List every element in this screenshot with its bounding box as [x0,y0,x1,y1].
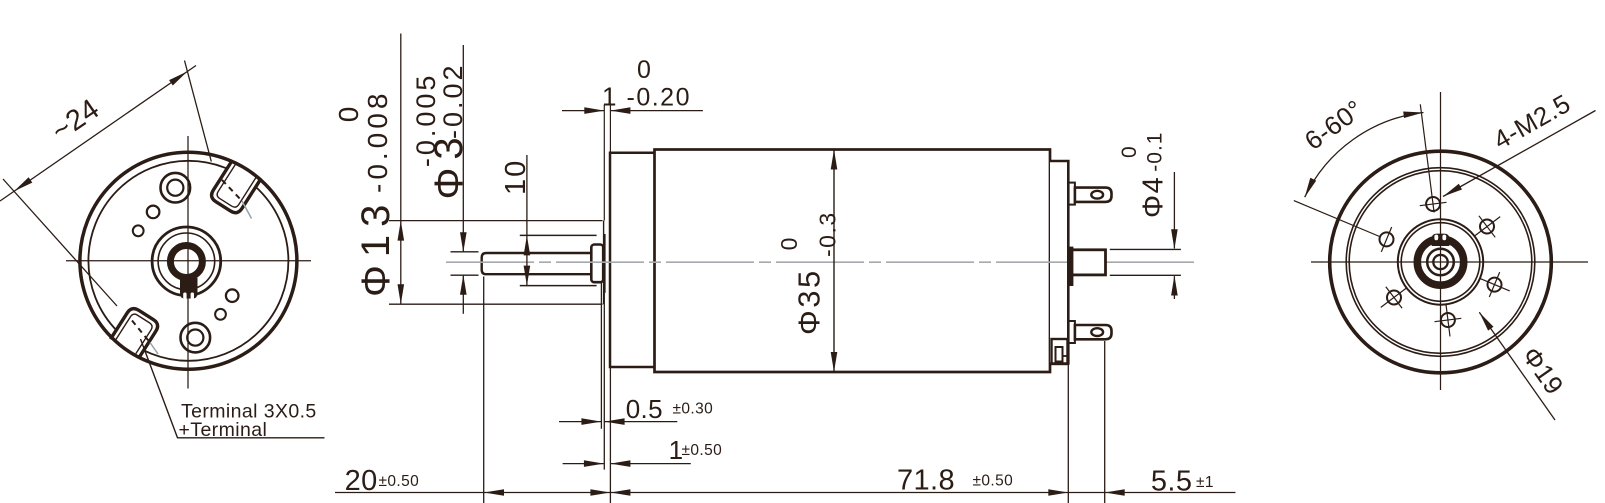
extension line: rear face [1067,364,1069,503]
rear boss rings [1398,219,1483,304]
dimension Phi4 [1110,248,1181,250]
svg-text:1: 1 [602,81,617,111]
~24 extension line lower [3,179,117,306]
left view outer rim [80,152,297,369]
svg-text:-0.3: -0.3 [815,211,841,257]
shaft [482,253,592,274]
centerline (motor axis) [446,261,1196,263]
rear shaft end rings [1427,249,1454,276]
terminal B (lower left) [110,306,160,358]
svg-text:+Terminal: +Terminal [179,419,268,441]
left view center boss [152,227,221,296]
svg-text:10: 10 [500,159,532,195]
svg-text:Φ35: Φ35 [792,268,827,335]
dimension 1 +-0.50 [563,463,604,465]
motor body cylinder [655,150,1051,373]
rear end bell [1050,161,1068,364]
svg-text:-0.02: -0.02 [438,62,468,139]
svg-text:-0.20: -0.20 [627,83,691,111]
small hole a [147,206,160,219]
svg-text:±0.50: ±0.50 [379,473,420,490]
screw hole 2 [1480,220,1494,234]
svg-text:-0.1: -0.1 [1144,132,1167,172]
terminal leader + label [141,339,325,438]
mounting hole top [161,173,191,203]
lower terminal tab (side view) [1068,321,1075,343]
screw hole 5 [1387,291,1401,305]
rear bearing retainer [1417,239,1463,285]
mounting hole bottom [181,323,211,353]
svg-text:Φ4: Φ4 [1138,176,1170,218]
~24 extension line upper [185,61,212,162]
svg-text:0: 0 [1118,145,1141,158]
dimension Phi13 [400,34,402,305]
small hole c [226,289,239,302]
label Phi19 [1479,312,1555,420]
dimension Phi35 [833,150,835,373]
label 4-M2.5 [1443,111,1596,197]
extension line: front face [609,367,611,503]
svg-text:0.5: 0.5 [626,394,663,424]
screw hole 3 [1488,278,1502,292]
svg-text:±0.50: ±0.50 [973,473,1014,490]
extension line: shaft tip [483,277,485,503]
front end plate [610,153,655,367]
svg-text:5.5: 5.5 [1151,466,1193,498]
dimension 0.5 +-0.30 [559,421,601,423]
bearing bore lines (10-dim extension) [520,234,597,236]
rear bearing collar [1067,247,1073,286]
boss front face line [603,221,605,305]
svg-text:Φ13: Φ13 [354,197,398,297]
small hole b [133,225,144,236]
svg-text:0: 0 [637,56,652,84]
svg-text:20: 20 [345,465,378,497]
extension line: boss front [603,293,605,470]
left view bearing retainer ring [170,246,202,278]
svg-text:0: 0 [776,236,802,250]
pilot boss extension lines (Phi13) [389,220,603,222]
dimension 10 [526,155,528,286]
svg-text:±0.50: ±0.50 [682,442,723,459]
dimension Phi3 [462,45,464,252]
dimension arc 6-60 deg [1305,113,1424,198]
rear retainer tab (top) [1432,234,1450,246]
screw hole 6 [1380,232,1394,246]
retainer tab (bottom) [180,278,198,299]
terminal A (upper right) [209,160,261,215]
dimension ~24 [0,66,196,202]
thermal clip (rear bottom) [1052,339,1068,364]
rear view crosshair vertical [1440,92,1442,390]
screw hole 1 [1426,197,1440,211]
left view crosshair vertical [187,136,189,389]
upper terminal tab (side view) [1068,183,1075,205]
svg-text:±1: ±1 [1196,474,1214,491]
shaft washer / spacer [591,245,603,283]
extension line: washer front [600,283,602,429]
svg-text:0: 0 [333,103,364,123]
bottom dimension line 20 / 71.8 / 5.5 [335,492,1236,494]
small hole d [215,309,226,320]
rear view crosshair horizontal [1311,261,1588,263]
screw hole 4 [1441,313,1455,327]
svg-text:71.8: 71.8 [897,465,955,497]
dimension 1 0/-0.20 (top) [603,105,605,221]
extension line: terminal tip [1104,341,1106,503]
left view crosshair horizontal [66,260,311,262]
svg-text:-0.005: -0.005 [411,73,441,168]
rear view outer rim [1330,151,1552,373]
svg-text:±0.30: ±0.30 [673,401,714,418]
svg-text:-0.008: -0.008 [362,90,393,193]
rear boss [1072,250,1106,275]
